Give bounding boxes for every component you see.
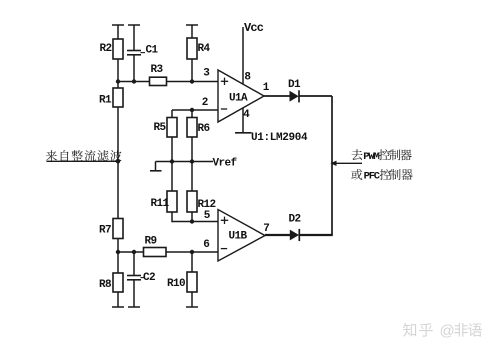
svg-text:7: 7 xyxy=(263,223,270,235)
svg-text:3: 3 xyxy=(203,68,210,80)
svg-text:PWM: PWM xyxy=(363,151,379,163)
svg-text:U1B: U1B xyxy=(229,231,248,243)
svg-text:R11: R11 xyxy=(151,198,170,210)
terminal bar (C1 branch input) xyxy=(128,24,140,26)
wire xyxy=(191,252,193,272)
svg-text:2: 2 xyxy=(202,97,209,109)
svg-text:6: 6 xyxy=(203,239,210,251)
svg-text:U1:LM2904: U1:LM2904 xyxy=(251,132,308,144)
junction (R6/R12) xyxy=(190,159,194,163)
junction (R4) xyxy=(190,79,194,83)
wire xyxy=(117,292,119,307)
capacitor C1 xyxy=(127,50,141,52)
resistor R6 xyxy=(187,118,197,138)
resistor R2 xyxy=(113,39,123,59)
svg-text:R1: R1 xyxy=(99,95,112,107)
resistor R3 xyxy=(150,77,167,85)
wire xyxy=(133,280,135,307)
resistor R11 xyxy=(167,191,177,212)
wire xyxy=(117,252,119,273)
terminal bar (R8 bottom) xyxy=(112,306,124,308)
wire xyxy=(191,110,193,118)
svg-text:R4: R4 xyxy=(198,43,211,55)
terminal bar (C2 bottom) xyxy=(128,306,140,308)
svg-text:D2: D2 xyxy=(289,214,301,226)
junction (R5/R11) xyxy=(170,159,174,163)
wire (pin 2) xyxy=(172,109,219,111)
wire (Vcc to pin 8) xyxy=(242,27,244,84)
resistor R7 xyxy=(113,219,123,239)
diode D1 xyxy=(290,91,299,102)
junction (C1) xyxy=(132,79,136,83)
watermark 知乎 @非语 xyxy=(403,323,416,337)
wire xyxy=(133,252,135,276)
wire (node A row to pin 3) xyxy=(117,81,149,83)
wire (to Vref) xyxy=(192,161,213,163)
svg-text:C1: C1 xyxy=(146,45,159,57)
label 去PWM控制器 xyxy=(352,149,363,160)
svg-text:PFC: PFC xyxy=(364,171,381,183)
wire xyxy=(191,162,193,192)
wire xyxy=(118,251,144,253)
wire xyxy=(133,55,135,82)
wire (to output label) xyxy=(332,162,362,164)
svg-text:R3: R3 xyxy=(151,64,164,76)
resistor R9 xyxy=(144,248,167,257)
svg-text:4: 4 xyxy=(243,109,250,121)
wire xyxy=(171,162,173,192)
svg-text:Vref: Vref xyxy=(213,158,238,170)
svg-text:R5: R5 xyxy=(154,122,167,134)
svg-text:8: 8 xyxy=(244,72,251,84)
wire xyxy=(117,59,119,82)
terminal bar (R4 branch input) xyxy=(186,24,198,26)
svg-text:Vcc: Vcc xyxy=(244,21,264,35)
svg-text:R10: R10 xyxy=(167,278,185,290)
terminal bar (R2 branch input) xyxy=(112,24,124,26)
wire (pin 5) xyxy=(172,221,219,223)
svg-text:C2: C2 xyxy=(143,272,155,284)
label 来自整流滤波 xyxy=(46,150,57,161)
junction (rail / R8) xyxy=(116,250,120,254)
wire (left rail) xyxy=(117,107,119,219)
junction (tap / rail) xyxy=(116,159,120,163)
wire (pin 7 output) xyxy=(265,234,290,236)
wire xyxy=(299,234,333,236)
svg-text:D1: D1 xyxy=(288,79,301,91)
wire xyxy=(171,110,173,118)
wire (right bus vertical) xyxy=(331,96,333,235)
wire xyxy=(117,82,119,89)
label 或PFC控制器 xyxy=(351,169,362,180)
output arrow junction xyxy=(330,161,336,166)
wire xyxy=(117,25,119,39)
svg-text:1: 1 xyxy=(263,82,270,94)
ground (pin 4) xyxy=(235,132,252,134)
resistor R10 xyxy=(187,272,197,292)
resistor R8 xyxy=(113,273,123,292)
op-amp U1A xyxy=(218,70,264,122)
svg-text:@: @ xyxy=(440,323,455,340)
wire xyxy=(191,212,193,222)
svg-text:R9: R9 xyxy=(145,236,157,248)
junction (R6 top) xyxy=(190,108,194,112)
wire (to pin 6) xyxy=(166,251,219,253)
capacitor C2 xyxy=(127,275,141,277)
wire xyxy=(191,137,193,162)
wire xyxy=(172,161,192,163)
wire xyxy=(171,137,173,162)
resistor R12 xyxy=(187,191,197,212)
resistor R4 xyxy=(187,38,197,59)
wire (pin 1 output) xyxy=(264,95,290,97)
junction (R10) xyxy=(190,250,194,254)
junction (C2) xyxy=(132,250,136,254)
junction (rail / R2) xyxy=(116,79,120,83)
junction (R12 bottom) xyxy=(190,219,194,223)
wire (ground stub) xyxy=(156,161,173,163)
wire xyxy=(191,25,193,38)
resistor R5 xyxy=(167,118,177,138)
svg-text:U1A: U1A xyxy=(229,93,248,105)
resistor R1 xyxy=(113,88,123,107)
svg-text:R6: R6 xyxy=(198,123,210,135)
wire xyxy=(191,59,193,82)
svg-text:R2: R2 xyxy=(100,43,112,55)
svg-text:R7: R7 xyxy=(99,225,111,237)
wire xyxy=(171,212,173,222)
svg-text:R8: R8 xyxy=(99,279,112,291)
svg-text:5: 5 xyxy=(204,210,211,222)
wire (input tap underline) xyxy=(47,160,119,162)
diode D2 xyxy=(290,230,299,241)
terminal bar (R10 bottom) xyxy=(186,306,198,308)
wire xyxy=(117,239,119,253)
wire xyxy=(299,95,332,97)
ground xyxy=(155,162,157,171)
wire xyxy=(191,292,193,307)
wire xyxy=(133,25,135,51)
wire xyxy=(167,81,219,83)
wire (pin 4) xyxy=(242,108,244,133)
op-amp U1B xyxy=(218,210,265,262)
